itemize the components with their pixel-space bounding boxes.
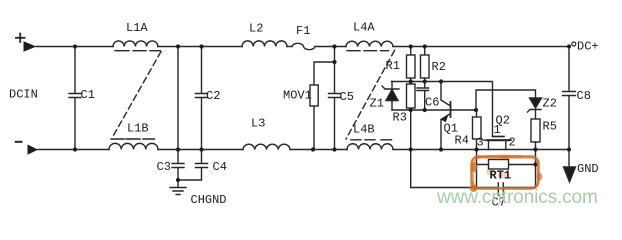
svg-text:Z2: Z2 [543, 97, 557, 111]
svg-text:L3: L3 [251, 117, 265, 131]
svg-text:C1: C1 [81, 88, 95, 102]
svg-text:C4: C4 [213, 160, 227, 174]
svg-text:www.cntronics.com: www.cntronics.com [436, 187, 598, 208]
svg-text:L1B: L1B [127, 122, 149, 136]
svg-text:R3: R3 [393, 111, 407, 125]
svg-text:CHGND: CHGND [191, 193, 227, 207]
svg-text:R4: R4 [455, 134, 469, 148]
svg-text:L2: L2 [249, 22, 263, 36]
svg-text:C2: C2 [206, 89, 220, 103]
svg-text:Z1: Z1 [370, 97, 384, 111]
svg-text:MOV1: MOV1 [283, 89, 312, 103]
svg-text:L4A: L4A [353, 21, 375, 35]
svg-text:DC+: DC+ [577, 40, 599, 54]
svg-text:F1: F1 [296, 24, 310, 38]
svg-text:2: 2 [509, 136, 516, 150]
svg-text:R1: R1 [386, 59, 400, 73]
svg-text:RT1: RT1 [490, 169, 512, 183]
svg-text:DCIN: DCIN [9, 88, 38, 102]
svg-text:R5: R5 [543, 120, 557, 134]
svg-text:C3: C3 [157, 160, 171, 174]
svg-text:1: 1 [494, 123, 501, 137]
svg-text:GND: GND [577, 162, 599, 176]
svg-text:C5: C5 [340, 90, 354, 104]
svg-text:3: 3 [477, 136, 484, 150]
svg-text:C6: C6 [425, 96, 439, 110]
svg-text:R2: R2 [432, 60, 446, 74]
svg-text:L4B: L4B [353, 123, 375, 137]
svg-text:L1A: L1A [126, 21, 148, 35]
svg-text:C8: C8 [577, 89, 591, 103]
